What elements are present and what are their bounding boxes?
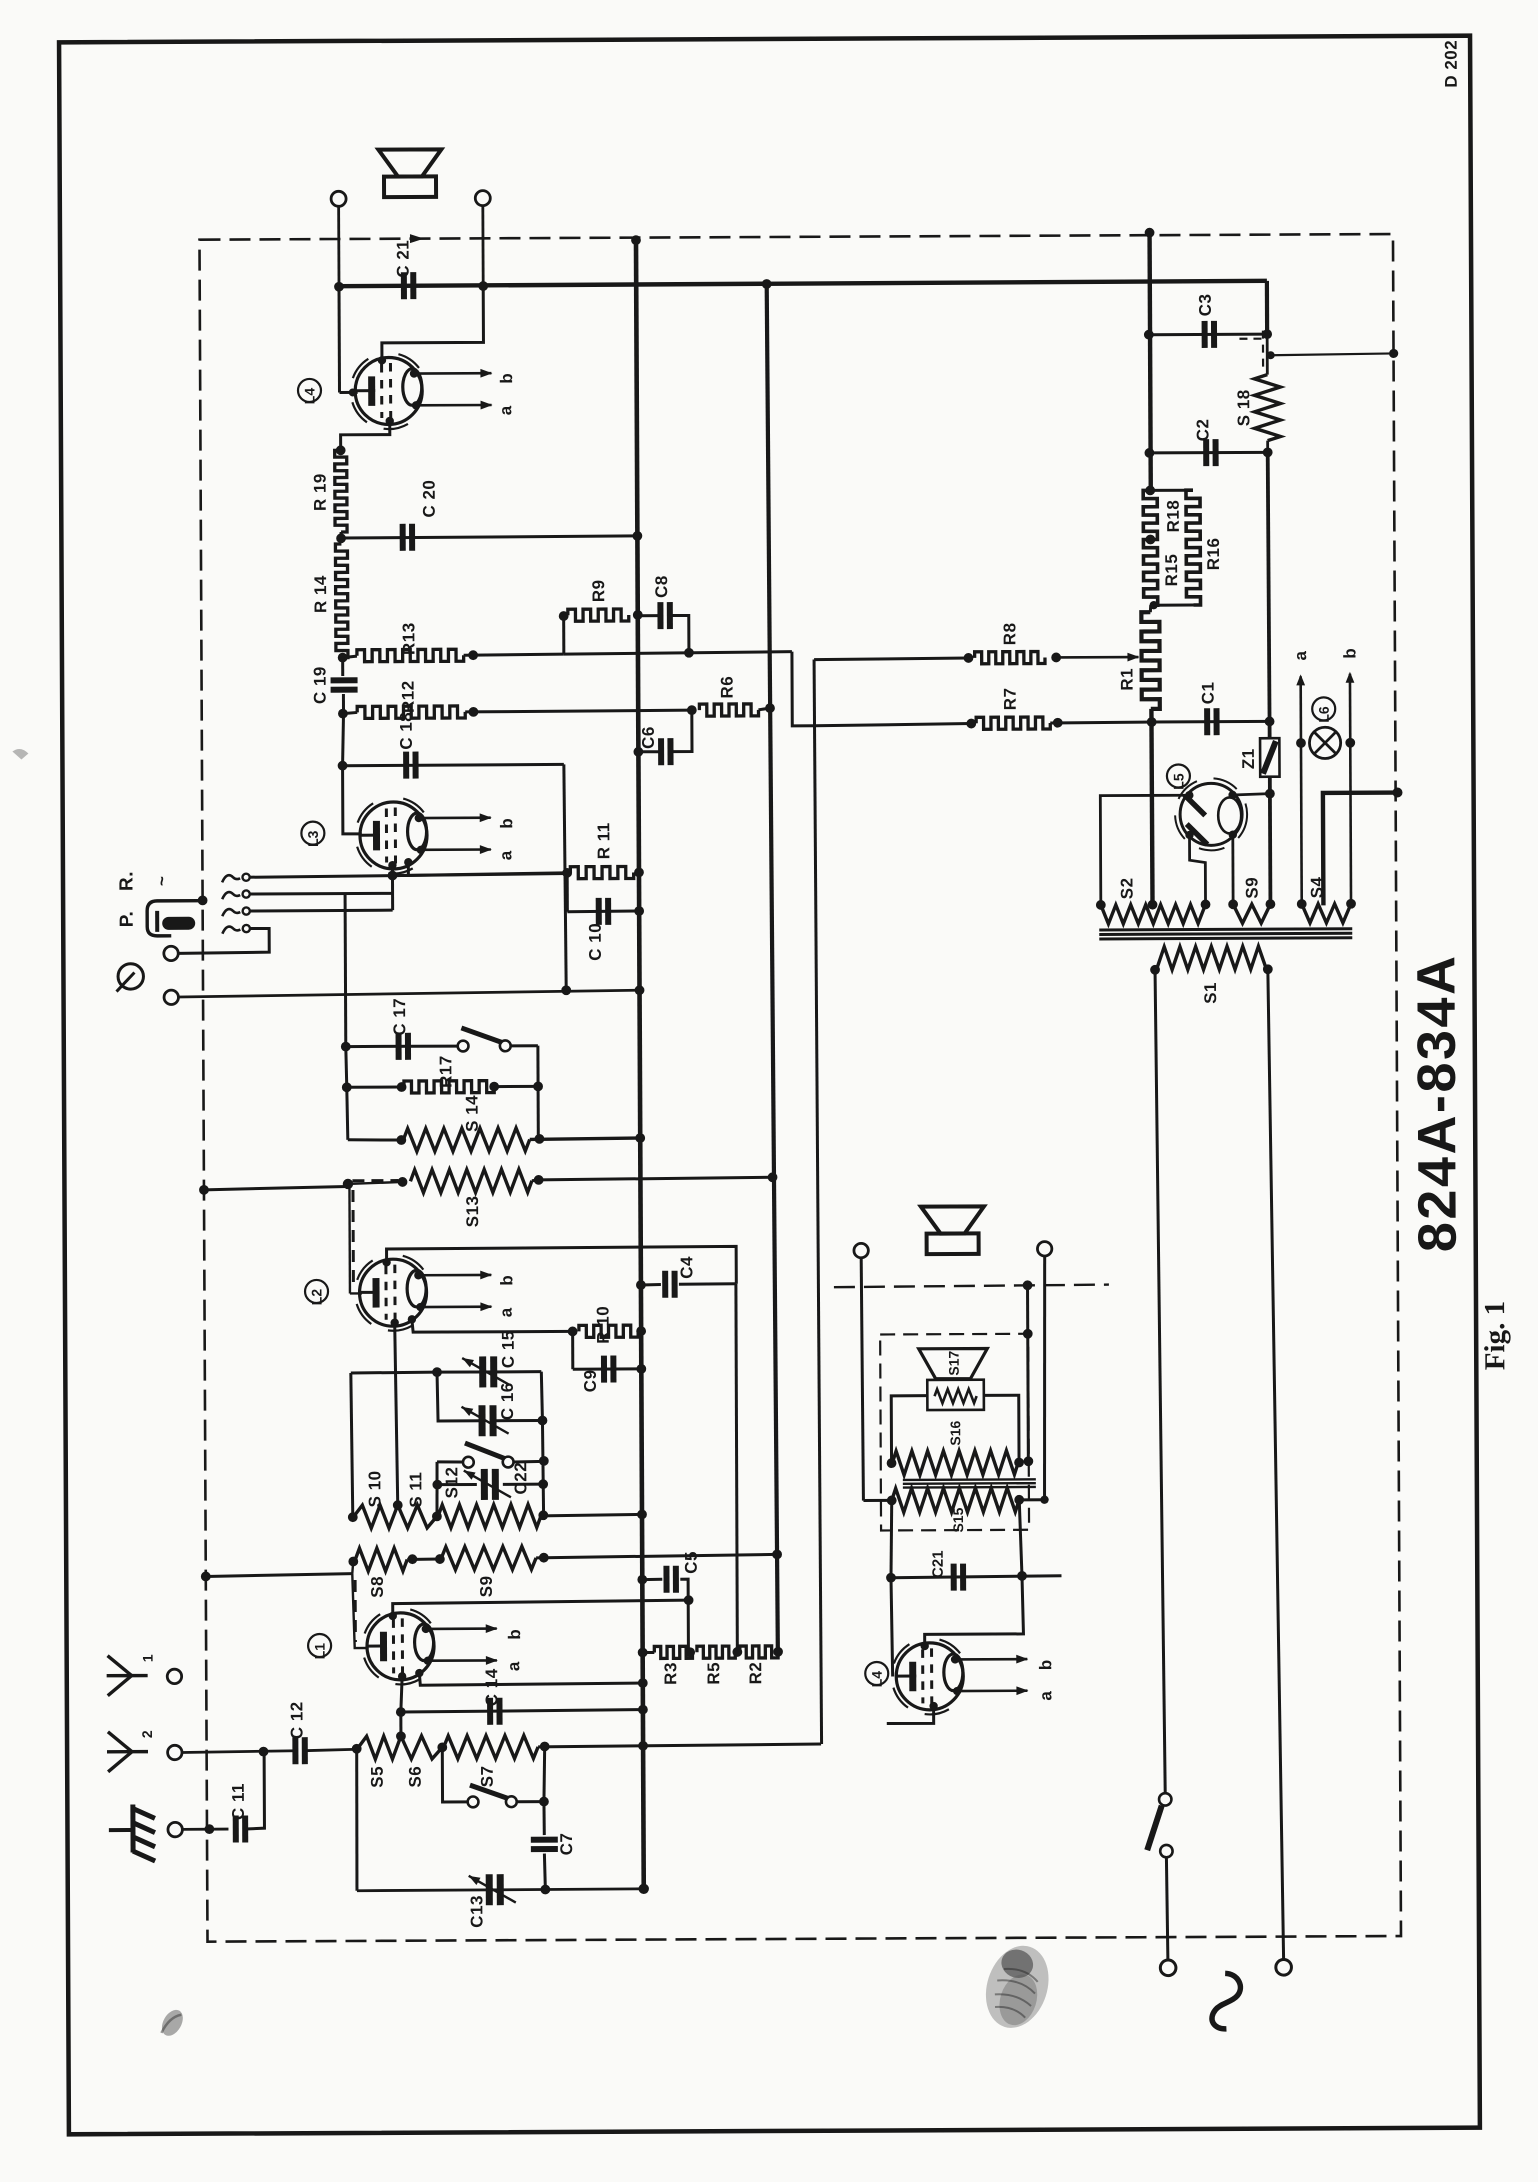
node C21b left <box>886 1573 896 1583</box>
coil S1 winding <box>1156 946 1266 970</box>
svg-text:C5: C5 <box>682 1551 701 1574</box>
coil S16 <box>892 1451 1018 1476</box>
wire L4 bottom to R19 <box>341 421 390 450</box>
L3 cathode pin <box>388 861 396 869</box>
wire S15 left link <box>863 1499 891 1502</box>
P.R. contact 4 <box>222 926 240 933</box>
capacitor C2 <box>1203 439 1209 466</box>
L4 pin b <box>410 369 418 377</box>
node C22 left rail <box>432 1480 442 1490</box>
capacitor C4 <box>662 1271 668 1298</box>
node S13 right <box>534 1175 544 1185</box>
wire S18 bottom to C2 <box>1266 441 1269 453</box>
wire R7 to bus2 <box>1050 720 1151 724</box>
svg-text:C3: C3 <box>1196 294 1215 317</box>
L4 lead b <box>414 372 491 375</box>
svg-text:a: a <box>497 1307 516 1317</box>
wire bus to R3 <box>643 1651 655 1654</box>
wire S12 switch row <box>437 1460 463 1463</box>
coil S9 winding <box>1233 904 1270 923</box>
node R19 top <box>336 445 346 455</box>
L5 pin bottom right <box>1229 830 1237 838</box>
coil S4 winding <box>1302 904 1351 923</box>
wire C14 row <box>401 1710 643 1712</box>
node gram line at C18 leg <box>561 985 571 995</box>
wire L5 centre tap <box>1189 835 1205 905</box>
L5 pin bottom left <box>1185 831 1193 839</box>
node R7 left <box>966 719 976 729</box>
chassis bus vertical <box>636 238 644 1889</box>
wire C20 row <box>341 536 636 538</box>
L4ext cathode stub <box>887 1706 934 1724</box>
capacitor C14 <box>487 1698 493 1725</box>
left rail S5 to C13 row <box>356 1749 357 1891</box>
speaker terminal left <box>331 191 346 206</box>
capacitor C6 <box>658 738 664 765</box>
HT feed vertical <box>767 284 778 1652</box>
antenna terminal 1 <box>167 1669 181 1683</box>
svg-text:R12: R12 <box>399 680 418 713</box>
wire line1-line3 rung <box>391 876 394 911</box>
wire C10 row <box>567 910 639 914</box>
resistor R15 <box>1143 539 1157 605</box>
capacitor C12 <box>292 1737 298 1764</box>
pilot lamp L6 <box>1309 727 1340 758</box>
wire S15 right link <box>1019 1498 1044 1501</box>
tube L1 <box>365 1614 381 1633</box>
L1 grid top pin <box>389 1612 397 1620</box>
svg-text:C 18: C 18 <box>397 712 416 750</box>
node C1 at V1270 <box>1265 717 1275 727</box>
resistor R5 <box>697 1646 735 1658</box>
wire C5 left to bus <box>642 1578 662 1581</box>
svg-text:b: b <box>1340 648 1359 659</box>
node chassis S8 feed <box>201 1572 211 1582</box>
coil S12 <box>438 1504 541 1527</box>
node HT at R6 <box>765 703 775 713</box>
node L4 cathode lead <box>349 388 357 396</box>
wire C13 row <box>357 1889 644 1891</box>
L1 anode pin <box>415 1669 423 1677</box>
svg-text:L2: L2 <box>309 1289 325 1306</box>
node S14 at bus <box>635 1133 645 1143</box>
resistor R12 <box>357 706 465 719</box>
node R17 start <box>397 1082 407 1092</box>
wire C5 right leg <box>680 1579 688 1651</box>
L5 anode bar 2 <box>1187 824 1208 845</box>
resistor R14 <box>335 544 348 658</box>
transformer core <box>1099 929 1352 930</box>
capacitor C1 <box>1204 708 1210 735</box>
right column C1 to Z1 <box>1268 721 1272 738</box>
resistor R10 <box>579 1325 638 1337</box>
L3 pin a <box>417 846 425 854</box>
right rail C16-S12row <box>542 1420 543 1515</box>
wire S7 row to V816 <box>538 1744 821 1747</box>
node C14 at bus <box>638 1705 648 1715</box>
L1 cathode pin <box>398 1672 406 1680</box>
svg-text:P.: P. <box>117 911 138 928</box>
wire R13 left stub <box>343 656 357 657</box>
switch blade s7 <box>470 1785 511 1800</box>
coil S10 <box>353 1505 397 1528</box>
svg-text:S 18: S 18 <box>1234 389 1253 426</box>
svg-text:b: b <box>505 1629 524 1640</box>
node S11-S12 junction <box>432 1511 442 1521</box>
node R8 right <box>1051 653 1061 663</box>
node S4 tap at chassis edge <box>1392 788 1402 798</box>
L4ext pin a <box>953 1687 961 1695</box>
svg-text:S 11: S 11 <box>406 1472 425 1508</box>
L2 anode pin <box>408 1315 416 1323</box>
wire C4 leg down <box>736 1284 738 1652</box>
wire R17 right <box>494 1085 538 1088</box>
svg-text:R7: R7 <box>1001 687 1020 710</box>
L2 lead b <box>418 1274 491 1277</box>
L2 lead a <box>420 1305 491 1308</box>
node C9 at bus <box>636 1364 646 1374</box>
speaker2 terminal right <box>1037 1242 1051 1256</box>
node lamp right <box>1345 738 1355 748</box>
node C2 at HT bus <box>1144 448 1154 458</box>
node S8 right <box>407 1554 417 1564</box>
wire S15 left down <box>891 1500 892 1577</box>
AVC drop to R7 row <box>792 652 814 726</box>
svg-text:a: a <box>1036 1691 1055 1701</box>
svg-text:R8: R8 <box>1000 622 1019 645</box>
L4 lead a <box>416 404 491 407</box>
L2 pin a <box>416 1303 424 1311</box>
grid cap wire L4 ext <box>924 1576 1023 1645</box>
svg-text:C 15: C 15 <box>499 1330 518 1368</box>
wire C22 row right <box>503 1483 543 1486</box>
svg-text:C2: C2 <box>1193 419 1212 442</box>
coil S18 <box>1254 375 1280 441</box>
P.R. contact 1 <box>222 875 240 882</box>
L3 lead b <box>419 816 491 819</box>
right column Z1 to L5 <box>1268 777 1272 794</box>
L2 grid top pin <box>382 1258 390 1266</box>
wire R16 bottom <box>1151 603 1194 606</box>
wire R11-C10 left leg <box>566 873 569 912</box>
svg-text:R 10: R 10 <box>594 1306 613 1344</box>
fuse resistor Z1 <box>1260 738 1279 777</box>
wire speaker left terminal down <box>337 206 340 286</box>
capacitor C21 <box>401 272 407 299</box>
svg-text:a: a <box>1291 650 1310 660</box>
wire C16 row right <box>495 1419 543 1422</box>
wire P.R. line1 <box>250 874 568 878</box>
node C10 at bus <box>634 906 644 916</box>
wire chassis to S13 junction <box>204 1186 347 1189</box>
wire P.R. line3 <box>250 909 393 913</box>
svg-text:C 21: C 21 <box>393 240 412 278</box>
node R17 end <box>489 1082 499 1092</box>
wire R16 top <box>1150 489 1193 492</box>
variable arrow C22 <box>464 1470 511 1497</box>
capacitor C11 <box>233 1816 239 1843</box>
mains switch blade <box>1147 1806 1162 1851</box>
corner S14 left <box>348 1138 402 1142</box>
ext transformer core <box>903 1478 1036 1481</box>
node S14 left <box>396 1135 406 1145</box>
tube L2 <box>357 1260 373 1279</box>
node R10 at bus <box>636 1326 646 1336</box>
wire R17 left <box>347 1086 402 1089</box>
loudspeaker 1 <box>378 149 441 176</box>
node S18 wire left <box>1267 351 1275 359</box>
L4 pin a <box>412 401 420 409</box>
wire C21b left down <box>891 1578 893 1677</box>
resistor R13 <box>357 649 464 662</box>
svg-text:a: a <box>496 850 515 860</box>
node S14 right <box>535 1134 545 1144</box>
svg-text:C21: C21 <box>930 1550 947 1578</box>
wire R6 right <box>758 708 770 710</box>
wire C6 row from bus <box>638 750 659 753</box>
lead into L2 cathode <box>350 1292 362 1294</box>
wire C4 to bus <box>641 1283 661 1286</box>
wire P.R. line2 <box>250 892 393 896</box>
label L3 circle <box>301 822 324 845</box>
arrow marker on chassis top edge <box>410 234 424 243</box>
HT bus top <box>1150 230 1151 490</box>
node S8 left <box>348 1557 358 1567</box>
node R9 left <box>559 611 569 621</box>
L5 pin left <box>1185 791 1193 799</box>
node S4 left <box>1297 899 1307 909</box>
wire S13 row to HT line <box>539 1177 773 1180</box>
wire S1 right down <box>1268 969 1284 1959</box>
wire S8 left rail <box>352 1560 353 1573</box>
switch contact c17 a <box>458 1041 469 1052</box>
capacitor C19 <box>331 677 358 683</box>
node HT bus at chassis top <box>1145 228 1155 238</box>
node S1 right <box>1263 964 1273 974</box>
node S2 right <box>1201 900 1211 910</box>
node C13-C7 junction <box>540 1885 550 1895</box>
L4ext bottom pin <box>929 1702 937 1710</box>
tube L3 <box>358 803 374 822</box>
svg-text:Fig. 1: Fig. 1 <box>1479 1301 1511 1370</box>
wire C18 right leg down <box>564 764 566 990</box>
wire speaker2 right down <box>1043 1256 1045 1500</box>
L3 lead a <box>421 848 491 851</box>
svg-text:S1: S1 <box>1201 982 1220 1004</box>
node C4 at bus <box>636 1280 646 1290</box>
node R12 right <box>468 707 478 717</box>
L1 grid cap wire <box>393 1600 690 1616</box>
L2 cathode pin <box>390 1318 398 1326</box>
grid column top <box>344 894 348 1047</box>
speaker2 dashed line <box>834 1285 1109 1288</box>
small smudge bottom left <box>158 2006 188 2039</box>
node C17 at column <box>341 1042 351 1052</box>
svg-text:S15: S15 <box>950 1507 966 1532</box>
node ext link at unit box <box>1023 1329 1033 1339</box>
L4ext grid pin <box>920 1642 928 1650</box>
wire left branch down to L4 cathode <box>338 287 341 393</box>
node C21 right <box>478 281 488 291</box>
switch contact s7 b <box>506 1796 517 1807</box>
node S13 junction <box>343 1179 353 1189</box>
wire chassis to S8 <box>206 1574 353 1577</box>
coil S6 <box>401 1736 442 1759</box>
capacitor C5 <box>663 1566 669 1593</box>
node C21b right <box>1017 1571 1027 1581</box>
L4ext pin b <box>951 1655 959 1663</box>
node R11 right at bus <box>634 867 644 877</box>
L1 cathode lead <box>401 1676 403 1712</box>
node S12 row at bus <box>637 1509 647 1519</box>
capacitor C22 <box>481 1469 488 1500</box>
resistor R16 <box>1186 490 1201 605</box>
capacitor C17 <box>396 1033 402 1060</box>
capacitor C9 <box>601 1356 607 1383</box>
coil S14 <box>403 1128 530 1152</box>
L3 anode pin <box>404 858 412 866</box>
C7 rail upper <box>544 1746 545 1801</box>
small mark left margin <box>12 749 28 760</box>
tube L4 <box>353 359 369 378</box>
node C13 row at bus bottom <box>639 1884 649 1894</box>
wire S13 left link <box>348 1182 403 1184</box>
svg-text:S12: S12 <box>442 1467 461 1499</box>
resistor R19 <box>335 450 347 532</box>
coil S5 <box>358 1736 401 1759</box>
speaker terminal right <box>475 191 490 206</box>
node HT top at C21 row <box>762 279 772 289</box>
svg-text:C 16: C 16 <box>498 1382 517 1420</box>
svg-text:C8: C8 <box>652 575 671 598</box>
P.R. contact 2 <box>222 892 240 899</box>
node S4 right <box>1346 899 1356 909</box>
wire C11 right up <box>245 1752 264 1829</box>
wire switch to right rail <box>511 1044 538 1047</box>
wire L5 left to S2 <box>1100 795 1190 905</box>
wire C16 row left rail <box>437 1372 481 1421</box>
svg-text:b: b <box>497 373 516 384</box>
capacitor C8 <box>657 602 663 629</box>
svg-text:S13: S13 <box>463 1195 482 1227</box>
wire speaker right terminal down <box>481 206 484 286</box>
svg-text:R17: R17 <box>436 1055 455 1088</box>
node R5-R2 junction <box>732 1647 742 1657</box>
node R14 bottom / R13 <box>338 653 348 663</box>
label L1 circle <box>308 1634 331 1657</box>
node S6-S7 junction <box>437 1742 447 1752</box>
svg-text:L4: L4 <box>869 1671 885 1688</box>
node S10 left <box>348 1512 358 1522</box>
gramophone terminal 1 <box>164 946 178 960</box>
svg-text:b: b <box>497 1275 516 1286</box>
node S1 left <box>1150 965 1160 975</box>
svg-text:R1: R1 <box>1118 668 1137 691</box>
node chassis S13 feed <box>199 1185 209 1195</box>
wire switch row right <box>514 1460 544 1464</box>
node C22 right rail <box>538 1479 548 1489</box>
P.R. contact 3 <box>222 909 240 916</box>
L1 pin b <box>422 1625 430 1633</box>
node S5 left <box>352 1744 362 1754</box>
node ext link top <box>1023 1280 1033 1290</box>
svg-text:R 19: R 19 <box>311 473 330 511</box>
jack chassis dot <box>198 895 208 905</box>
resistor R3 <box>654 1646 692 1658</box>
capacitor C21 ext <box>951 1564 957 1591</box>
node gram line at bus <box>635 985 645 995</box>
HT bus mid <box>1151 709 1152 905</box>
svg-text:R15: R15 <box>1162 554 1181 587</box>
node R7 at HT bus <box>1147 717 1157 727</box>
mains switch contact top <box>1159 1793 1171 1805</box>
node R3-R5 junction <box>685 1647 695 1657</box>
node S16 rail <box>1023 1456 1033 1466</box>
node S9 winding left <box>1228 899 1238 909</box>
node R8 left <box>964 653 974 663</box>
S18 coupling dashes <box>1239 338 1262 340</box>
svg-text:C 20: C 20 <box>420 480 439 518</box>
node R18 top <box>1145 485 1155 495</box>
wire C19c to C18 node <box>342 714 343 766</box>
svg-text:C 17: C 17 <box>390 998 409 1036</box>
node R2 right <box>773 1647 783 1657</box>
pickup jack symbol <box>147 901 200 936</box>
svg-text:C6: C6 <box>639 726 658 749</box>
output lead a <box>1301 676 1302 904</box>
AVC row right of bus <box>564 652 792 654</box>
shielded lead to L2 dashes <box>351 1190 354 1287</box>
capacitor C16 <box>478 1405 485 1436</box>
wire ground to chassis <box>182 1828 228 1831</box>
svg-text:L6: L6 <box>1316 706 1332 723</box>
wire C8 row from bus <box>638 614 659 617</box>
svg-text:S9: S9 <box>477 1575 496 1597</box>
L5 anode bar 1 <box>1185 795 1206 816</box>
L3 cathode drop <box>391 865 394 875</box>
wire gramophone line <box>179 990 640 997</box>
antenna symbol 1 <box>108 1656 132 1676</box>
svg-text:C 10: C 10 <box>586 923 605 961</box>
wire C22 row left <box>437 1483 476 1486</box>
wire C15 row <box>437 1370 541 1373</box>
capacitor C13 <box>486 1874 493 1905</box>
R8 leg vertical <box>814 659 822 1743</box>
svg-text:S8: S8 <box>368 1576 387 1598</box>
node R17 left rail <box>342 1082 352 1092</box>
shielded lead to L1 dashes <box>354 1580 357 1642</box>
wire S13 stub <box>532 1178 539 1182</box>
wire R12 row right <box>465 710 692 712</box>
node C5 at bus <box>637 1575 647 1585</box>
svg-text:2: 2 <box>139 1730 155 1738</box>
node R7 right <box>1053 718 1063 728</box>
node S9 left <box>435 1554 445 1564</box>
svg-text:a: a <box>504 1661 523 1671</box>
voice coil right lead <box>984 1395 1019 1462</box>
L4ext lead a <box>957 1689 1027 1692</box>
L3 pin b <box>415 814 423 822</box>
antenna symbol 2 <box>108 1732 132 1752</box>
wire C6 right leg <box>672 710 692 751</box>
wire S6 drop to switch <box>442 1747 467 1802</box>
left rail S10 block <box>351 1373 353 1517</box>
variable arrow C13 <box>469 1876 516 1903</box>
svg-text:C 11: C 11 <box>229 1783 248 1820</box>
L4 grid top pin <box>378 356 386 364</box>
gramophone terminal 2 <box>164 990 178 1004</box>
node S18 wire at chassis edge <box>1389 349 1398 358</box>
